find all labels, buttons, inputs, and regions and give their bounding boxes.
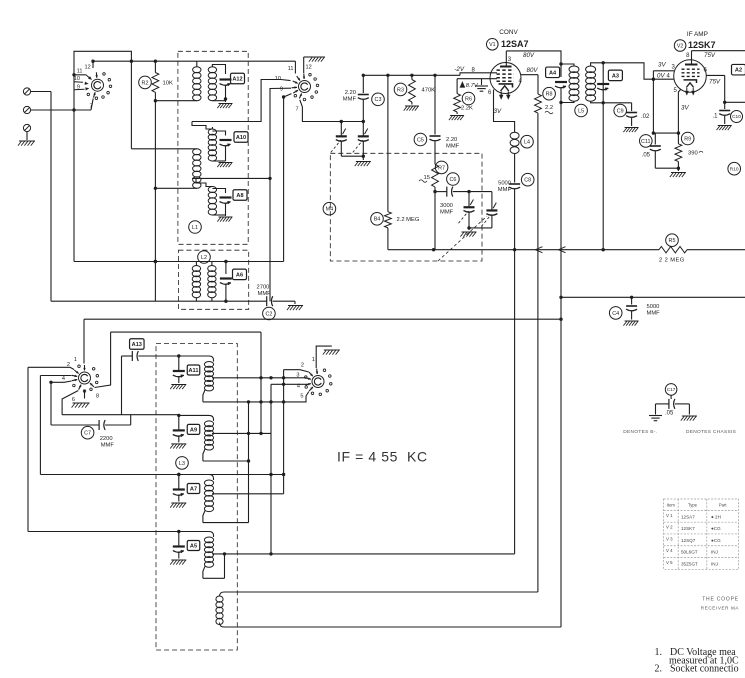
svg-text:R10: R10 bbox=[730, 166, 739, 172]
svg-text:2.2: 2.2 bbox=[545, 105, 553, 111]
svg-text:R7: R7 bbox=[438, 165, 445, 171]
svg-text:V 5: V 5 bbox=[666, 560, 673, 565]
svg-text:C2: C2 bbox=[265, 311, 272, 317]
svg-text:V 4: V 4 bbox=[666, 548, 673, 553]
svg-text:L4: L4 bbox=[524, 140, 530, 146]
svg-text:3V: 3V bbox=[658, 62, 666, 69]
svg-text:2.20: 2.20 bbox=[345, 90, 356, 96]
svg-text:Socket connectio: Socket connectio bbox=[670, 664, 739, 674]
svg-text:-2V: -2V bbox=[454, 66, 465, 73]
svg-text:MMF: MMF bbox=[440, 210, 454, 216]
svg-text:A5: A5 bbox=[190, 544, 197, 550]
svg-text:A3: A3 bbox=[612, 73, 619, 79]
svg-text:C5: C5 bbox=[417, 137, 424, 143]
svg-text:V1: V1 bbox=[489, 42, 495, 48]
svg-text:12SK7: 12SK7 bbox=[688, 40, 716, 50]
svg-text:R8: R8 bbox=[546, 92, 553, 98]
svg-text:75V: 75V bbox=[704, 52, 716, 59]
svg-text:12: 12 bbox=[85, 65, 91, 71]
svg-text:C4: C4 bbox=[612, 311, 619, 317]
svg-text:M4: M4 bbox=[326, 207, 334, 213]
svg-text:C3: C3 bbox=[375, 97, 382, 103]
svg-text:IF = 4 55 KC: IF = 4 55 KC bbox=[337, 449, 428, 465]
svg-text:L2: L2 bbox=[201, 255, 207, 261]
svg-text:R3: R3 bbox=[397, 87, 404, 93]
svg-text:5000: 5000 bbox=[498, 181, 511, 187]
svg-text:A11: A11 bbox=[189, 368, 199, 374]
svg-text:A9: A9 bbox=[190, 427, 197, 433]
svg-text:35Z5GT: 35Z5GT bbox=[681, 562, 698, 567]
svg-text:A8: A8 bbox=[236, 193, 243, 199]
svg-text:MMF: MMF bbox=[647, 311, 661, 317]
svg-text:A12: A12 bbox=[232, 77, 242, 83]
svg-text:11: 11 bbox=[288, 66, 294, 72]
svg-text:4: 4 bbox=[62, 376, 65, 382]
svg-text:470K: 470K bbox=[422, 88, 436, 94]
svg-text:1: 1 bbox=[312, 357, 315, 363]
svg-text:1: 1 bbox=[74, 357, 77, 363]
svg-text:.05: .05 bbox=[665, 411, 674, 417]
svg-text:8: 8 bbox=[96, 394, 99, 400]
svg-text:12: 12 bbox=[306, 65, 312, 71]
svg-text:2.2K: 2.2K bbox=[461, 106, 473, 112]
svg-text:C8: C8 bbox=[524, 178, 531, 184]
svg-text:75V: 75V bbox=[709, 79, 721, 86]
svg-text:80V: 80V bbox=[527, 67, 539, 74]
svg-text:A6: A6 bbox=[236, 272, 243, 278]
svg-text:A10: A10 bbox=[236, 135, 246, 141]
svg-text:5000: 5000 bbox=[647, 304, 660, 310]
svg-text:.02: .02 bbox=[641, 114, 650, 120]
svg-text:2.: 2. bbox=[655, 664, 663, 674]
svg-text:L5: L5 bbox=[578, 108, 584, 114]
svg-text:RECEIVER MA: RECEIVER MA bbox=[701, 606, 740, 611]
svg-text:390: 390 bbox=[688, 151, 698, 157]
svg-text:A4: A4 bbox=[549, 70, 557, 76]
svg-text:CONV: CONV bbox=[499, 29, 518, 36]
svg-text:0V: 0V bbox=[657, 73, 665, 80]
svg-text:C10: C10 bbox=[732, 114, 741, 120]
svg-text:11: 11 bbox=[77, 69, 83, 75]
svg-text:IF AMP: IF AMP bbox=[687, 31, 708, 38]
svg-text:L3: L3 bbox=[179, 461, 185, 467]
svg-text:2200: 2200 bbox=[100, 436, 113, 442]
svg-text:THE COOPE: THE COOPE bbox=[702, 597, 739, 603]
svg-text:3V: 3V bbox=[681, 105, 689, 112]
svg-text:A2: A2 bbox=[735, 68, 742, 74]
svg-text:● 2H: ● 2H bbox=[711, 514, 721, 519]
svg-text:R5: R5 bbox=[669, 238, 676, 244]
svg-text:A7: A7 bbox=[190, 487, 197, 493]
svg-text:L1: L1 bbox=[192, 225, 198, 231]
svg-text:1.: 1. bbox=[655, 647, 663, 658]
svg-text:C11: C11 bbox=[641, 139, 651, 145]
svg-text:2.20: 2.20 bbox=[446, 137, 457, 143]
svg-text:INJ: INJ bbox=[711, 562, 718, 567]
svg-text:DENOTES B-.: DENOTES B-. bbox=[623, 429, 657, 435]
svg-text:MMF: MMF bbox=[343, 97, 357, 103]
svg-text:3V: 3V bbox=[494, 108, 502, 115]
svg-text:7: 7 bbox=[296, 107, 299, 113]
svg-text:●CG: ●CG bbox=[711, 526, 721, 531]
svg-text:V 2: V 2 bbox=[666, 525, 673, 530]
svg-text:●CG: ●CG bbox=[711, 538, 721, 543]
svg-text:12SK7: 12SK7 bbox=[681, 526, 695, 531]
svg-text:R2: R2 bbox=[142, 80, 149, 86]
svg-text:V 1: V 1 bbox=[666, 513, 673, 518]
svg-text:3000: 3000 bbox=[440, 203, 453, 209]
svg-text:C6: C6 bbox=[449, 177, 456, 183]
svg-text:DENOTES CHASSIS: DENOTES CHASSIS bbox=[686, 429, 736, 435]
svg-text:C17: C17 bbox=[667, 387, 676, 392]
svg-text:2 2 MEG: 2 2 MEG bbox=[659, 258, 685, 264]
svg-text:A13: A13 bbox=[132, 342, 142, 348]
svg-text:R9: R9 bbox=[684, 136, 691, 142]
svg-text:.1: .1 bbox=[712, 114, 718, 120]
svg-text:V 3: V 3 bbox=[666, 536, 673, 541]
svg-text:B4: B4 bbox=[374, 217, 381, 223]
svg-text:15: 15 bbox=[424, 175, 430, 181]
svg-text:.05: .05 bbox=[642, 153, 651, 159]
svg-text:2.2 MEG: 2.2 MEG bbox=[397, 217, 420, 223]
svg-text:10: 10 bbox=[74, 76, 80, 82]
svg-text:MMF: MMF bbox=[258, 291, 272, 297]
svg-text:C7: C7 bbox=[84, 431, 91, 437]
svg-text:6: 6 bbox=[72, 397, 75, 403]
svg-text:10K: 10K bbox=[163, 81, 173, 87]
svg-text:2: 2 bbox=[301, 363, 304, 369]
svg-text:2700: 2700 bbox=[257, 285, 270, 291]
svg-text:9: 9 bbox=[280, 87, 283, 93]
svg-text:C9: C9 bbox=[617, 108, 624, 114]
svg-text:Item: Item bbox=[667, 503, 676, 508]
svg-text:50L6GT: 50L6GT bbox=[681, 550, 698, 555]
svg-text:Part: Part bbox=[719, 503, 728, 508]
svg-text:R6: R6 bbox=[465, 96, 472, 102]
svg-text:12SA7: 12SA7 bbox=[501, 39, 529, 49]
svg-text:V2: V2 bbox=[677, 43, 683, 49]
svg-text:MMF: MMF bbox=[446, 144, 460, 150]
svg-text:12SQ7: 12SQ7 bbox=[681, 538, 696, 543]
svg-text:12SA7: 12SA7 bbox=[681, 514, 695, 519]
svg-text:5: 5 bbox=[300, 394, 303, 400]
svg-text:80V: 80V bbox=[523, 52, 535, 59]
svg-text:Type: Type bbox=[688, 503, 698, 508]
svg-text:INJ: INJ bbox=[711, 550, 718, 555]
svg-text:MMF: MMF bbox=[101, 443, 115, 449]
